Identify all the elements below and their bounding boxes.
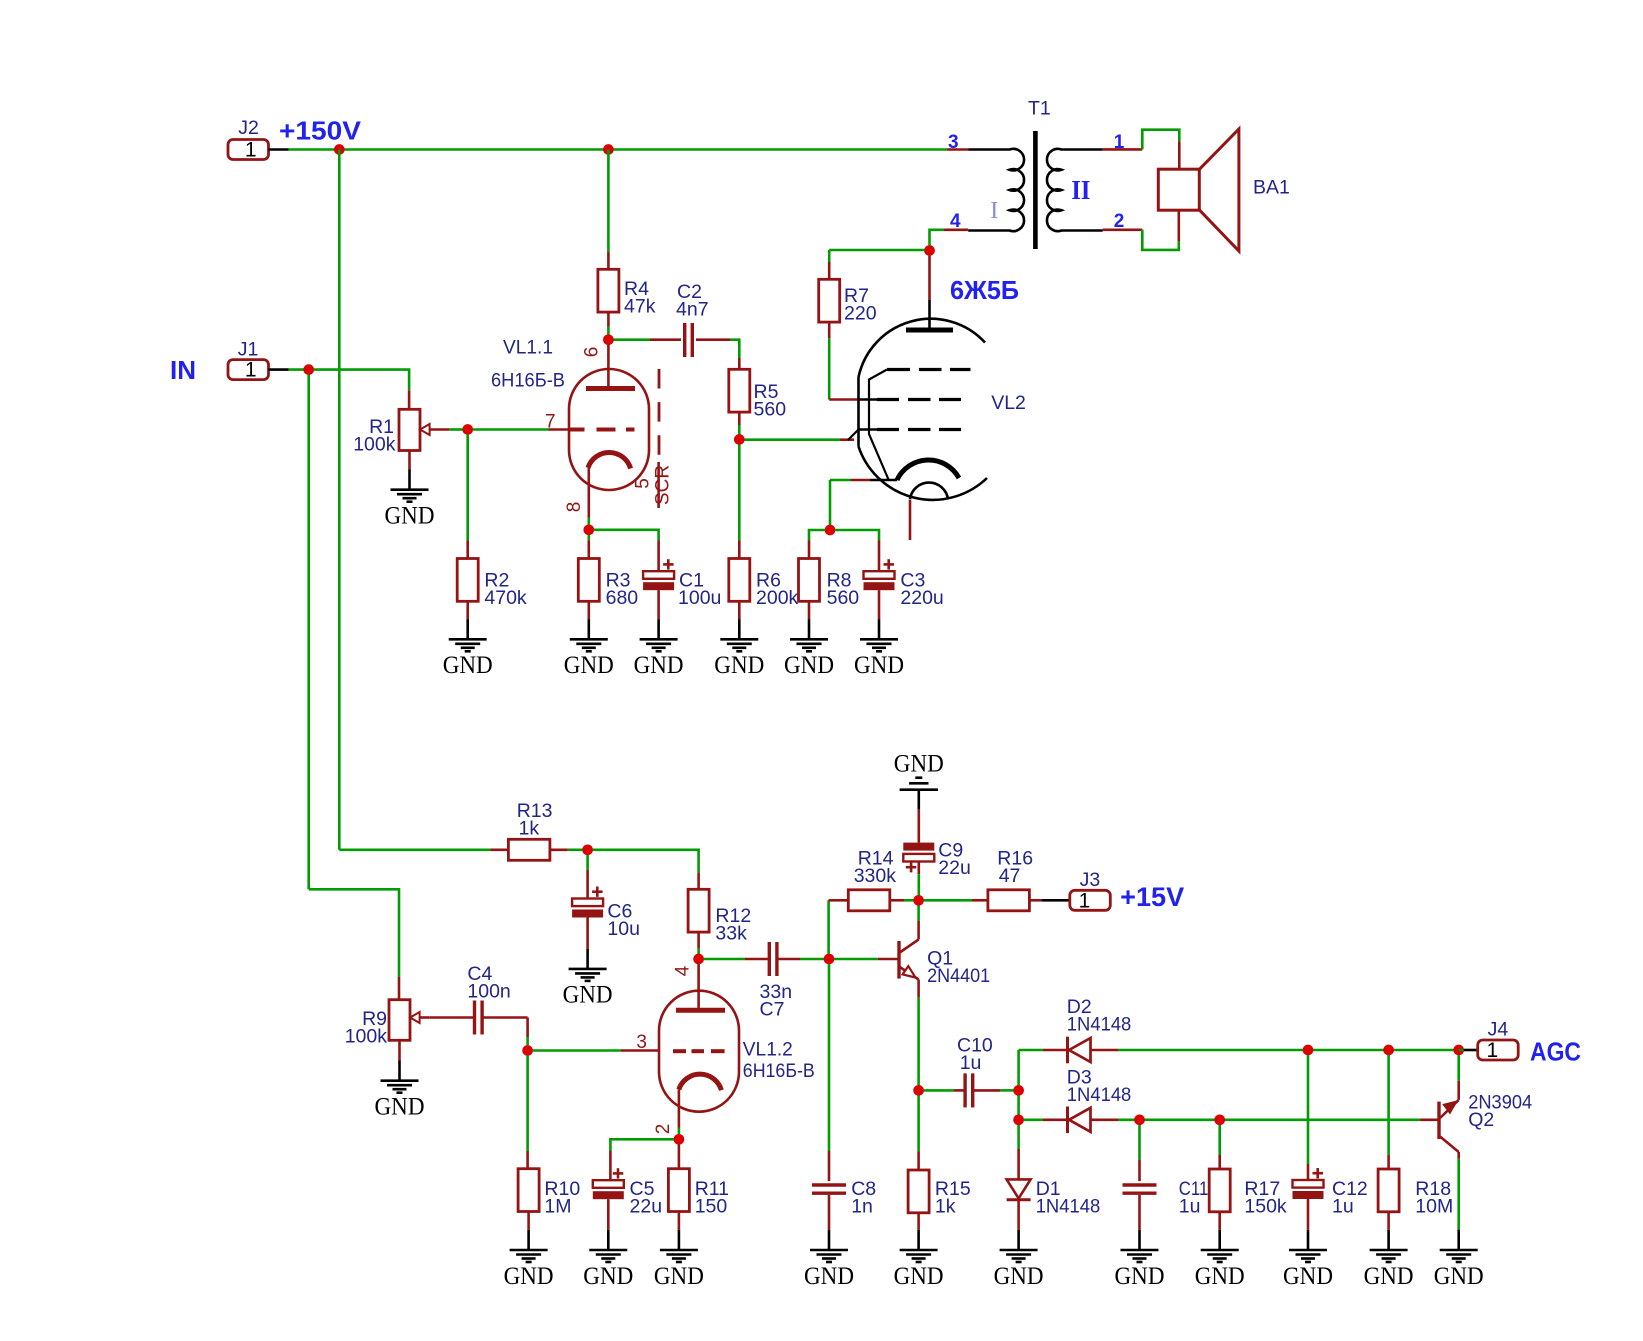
wire C2 to R5 [696, 338, 730, 341]
node junction cathode/R8/C3 [825, 525, 836, 536]
svg-text:GND: GND [443, 652, 493, 679]
wire C9 to node [917, 862, 920, 875]
svg-text:22u: 22u [938, 857, 971, 879]
node junction J2 rail / left vertical [334, 144, 345, 155]
svg-text:2: 2 [653, 1124, 674, 1135]
wire R17 to ground [1218, 1212, 1221, 1230]
wire base rail to Q2 [1420, 1119, 1439, 1122]
transformer T1 primary winding [968, 149, 1024, 231]
tube VL1.2 grid [673, 1049, 686, 1053]
svg-text:1N4148: 1N4148 [1067, 1084, 1132, 1106]
svg-text:C7: C7 [760, 999, 785, 1021]
svg-text:GND: GND [894, 1263, 944, 1290]
wire T1 pin1 [1103, 148, 1143, 151]
wire node to C7 [704, 958, 745, 961]
wire cathode pin 8 [587, 468, 590, 518]
svg-text:1M: 1M [544, 1196, 571, 1218]
wire R3 to ground [587, 601, 590, 619]
ground R15 [917, 1230, 920, 1250]
wire C4 to node [482, 1016, 527, 1019]
wire C8 to ground [828, 1195, 831, 1230]
svg-text:GND: GND [1115, 1263, 1165, 1290]
svg-text:1N4148: 1N4148 [1036, 1196, 1101, 1218]
svg-text:220u: 220u [900, 587, 943, 609]
ground C11 [1138, 1230, 1141, 1250]
node junction C7/C8/Q1 base [824, 954, 835, 965]
capacitor C4 [473, 1001, 476, 1035]
wire node to VL1.2 plate [697, 964, 700, 1010]
wire C5 to ground [607, 1199, 610, 1230]
svg-text:GND: GND [563, 982, 613, 1009]
svg-text:1k: 1k [935, 1196, 956, 1218]
wire node to T1 pin4 [930, 230, 945, 246]
svg-text:GND: GND [385, 503, 435, 530]
wire R6 to ground [738, 601, 741, 619]
svg-text:3: 3 [636, 1032, 647, 1053]
wire R2 to ground [466, 601, 469, 619]
wire node to R8 [809, 530, 825, 541]
wire VL2 cathode to node [851, 479, 871, 482]
svg-text:1: 1 [1487, 1039, 1499, 1062]
ground C5 [607, 1230, 610, 1250]
node junction R5/R6/VL2 grid [734, 434, 745, 445]
node junction D3 rail/C11 [1134, 1114, 1145, 1125]
svg-text:4: 4 [673, 965, 694, 976]
wire J1 to R1 [314, 370, 409, 391]
svg-text:+15V: +15V [1120, 882, 1184, 912]
tube VL2 plate [928, 300, 931, 330]
wire pin1 to speaker [1142, 130, 1179, 150]
connector J3 [1070, 890, 1111, 910]
tube VL2 envelope [859, 319, 986, 377]
resistor R17 [1209, 1169, 1230, 1212]
ground C3 [878, 619, 881, 639]
svg-text:8: 8 [564, 502, 585, 513]
wire C11 to ground [1138, 1195, 1141, 1230]
node junction AGC/R18 [1383, 1045, 1394, 1056]
svg-text:10u: 10u [607, 918, 640, 940]
svg-text:GND: GND [504, 1263, 554, 1290]
svg-text:1: 1 [1114, 132, 1125, 153]
svg-text:5: 5 [633, 478, 654, 489]
svg-text:SCR: SCR [653, 465, 674, 505]
svg-text:VL2: VL2 [991, 392, 1026, 414]
ground R10 [527, 1230, 530, 1250]
svg-text:100u: 100u [678, 587, 721, 609]
svg-text:Q2: Q2 [1468, 1109, 1494, 1131]
svg-text:560: 560 [754, 399, 787, 421]
node junction C4/R10/pin3 [522, 1045, 533, 1056]
wire +150V left vertical [338, 150, 341, 850]
wire R17 lead [1218, 1125, 1221, 1155]
svg-text:1u: 1u [960, 1052, 982, 1074]
ground R8 [808, 619, 811, 639]
ground R11 [678, 1230, 681, 1250]
wire R18 to ground [1387, 1212, 1390, 1230]
diode D3 [1066, 1107, 1069, 1134]
wire R14 left vertical [827, 900, 830, 954]
wire node to C3 [835, 530, 879, 541]
ground above C9 [917, 790, 920, 810]
wire node to Q1 base [834, 958, 878, 961]
node junction C10/diode column [1013, 1085, 1024, 1096]
wire node to VL1.2 grid [533, 1049, 621, 1052]
svg-text:J2: J2 [238, 117, 259, 139]
ground Q2 [1457, 1230, 1460, 1250]
node junction AGC/C12 [1303, 1045, 1314, 1056]
wire +150V rail [289, 148, 947, 151]
capacitor C10 [963, 1073, 966, 1107]
svg-text:IN: IN [170, 355, 196, 385]
wire D3 rail right [1091, 1119, 1119, 1122]
svg-text:1: 1 [245, 139, 257, 162]
svg-text:6Н16Б-В: 6Н16Б-В [491, 370, 565, 392]
wire node to C8 [828, 964, 831, 1151]
svg-text:J1: J1 [238, 339, 259, 361]
node junction Q1 emitter/C10/R15 [913, 1085, 924, 1096]
wire R13 to node [550, 848, 568, 851]
wire node to R3 [587, 535, 590, 541]
svg-text:1n: 1n [851, 1196, 873, 1218]
capacitor C9 [903, 843, 934, 851]
ground R3 [587, 619, 590, 639]
wire rail to T1 pin3 [947, 148, 968, 151]
node junction wiper/R2/pin7 [462, 424, 473, 435]
resistor R11 [668, 1169, 689, 1212]
wire node to VL2 grid [744, 438, 840, 441]
node junction T1 pin4/R7/VL2 plate [924, 245, 935, 256]
svg-text:GND: GND [1364, 1263, 1414, 1290]
wire C7 to node [777, 958, 800, 961]
svg-text:330k: 330k [854, 865, 897, 887]
tube VL1.1 cathode [588, 452, 631, 468]
wire R10 to ground [527, 1212, 530, 1230]
svg-text:470k: 470k [484, 587, 527, 609]
wire C11 lead [1138, 1125, 1141, 1160]
wire node to R7 [829, 249, 924, 252]
svg-text:100k: 100k [345, 1026, 388, 1048]
svg-text:AGC: AGC [1530, 1037, 1581, 1067]
node junction R12/C7/pin4 [693, 954, 704, 965]
diode D2 [1066, 1037, 1069, 1064]
svg-text:220: 220 [844, 303, 877, 325]
wire node to R12 [593, 850, 699, 873]
wire node to R11 [678, 1144, 681, 1168]
svg-text:J3: J3 [1080, 869, 1101, 891]
wire J1 pin stub [269, 368, 289, 371]
resistor R13 [508, 839, 550, 860]
svg-text:VL1.2: VL1.2 [743, 1039, 793, 1061]
ground R17 [1218, 1230, 1221, 1250]
ground D1 [1017, 1230, 1020, 1250]
wire ground to C9 [917, 810, 920, 843]
svg-text:200k: 200k [756, 587, 799, 609]
tube half separator dashed [658, 369, 661, 457]
ground C6 [586, 949, 589, 969]
svg-text:BA1: BA1 [1253, 177, 1290, 199]
svg-text:47: 47 [999, 865, 1021, 887]
wire pin2 to speaker [1142, 230, 1179, 250]
svg-text:100n: 100n [467, 981, 510, 1003]
svg-text:150k: 150k [1244, 1196, 1287, 1218]
resistor R18 [1378, 1169, 1399, 1212]
connector J2 [228, 140, 269, 160]
tube VL2 screen grid [859, 398, 878, 401]
svg-text:560: 560 [827, 587, 860, 609]
svg-text:GND: GND [375, 1094, 425, 1121]
wire column D2-D3 [1017, 1096, 1020, 1115]
node junction R13/C6/R12 [582, 844, 593, 855]
wire C10 to node [973, 1089, 1000, 1092]
wire node to R16 [924, 899, 972, 902]
wire D3 rail left [1024, 1119, 1043, 1122]
wire D2 to AGC rail [1091, 1049, 1119, 1052]
node junction AGC/Q2 [1453, 1045, 1464, 1056]
ground C1 [657, 619, 660, 639]
resistor R8 [799, 559, 820, 602]
wire cathode pin 2 [678, 1090, 681, 1128]
node junction J1/IN vertical [303, 364, 314, 375]
tube VL1.1 envelope [569, 369, 649, 490]
node junction rail / R4 [603, 144, 614, 155]
wire C6 to ground [586, 917, 589, 948]
transistor Q2 [1437, 1102, 1440, 1139]
resistor R3 [578, 559, 599, 602]
svg-text:22u: 22u [630, 1196, 663, 1218]
ground R18 [1387, 1230, 1390, 1250]
svg-text:3: 3 [948, 132, 959, 153]
wire R8 to ground [808, 601, 811, 619]
node junction D3 rail/D1 [1013, 1114, 1024, 1125]
wire C12 to ground [1307, 1199, 1310, 1230]
transistor Q1 [897, 941, 900, 979]
capacitor C6 [572, 899, 603, 907]
svg-text:47k: 47k [624, 296, 656, 318]
wire R15 to ground [917, 1213, 920, 1230]
wire R1 to ground [408, 451, 411, 470]
node junction pin6/R4/C2 [603, 334, 614, 345]
wire J1 to junction [289, 368, 309, 371]
wire node to R15 [917, 1096, 920, 1152]
tube VL1.2 plate [676, 1008, 725, 1013]
resistor R10 [518, 1169, 539, 1212]
wire R9 to ground [398, 1040, 401, 1060]
potentiometer R9 [389, 1000, 410, 1041]
tube VL2 suppressor grid [887, 368, 910, 371]
ground R1 [408, 470, 411, 490]
transformer T1 core [1033, 131, 1038, 249]
wire J2 pin stub [269, 148, 289, 151]
capacitor C5 [593, 1180, 624, 1188]
svg-text:1u: 1u [1332, 1196, 1354, 1218]
tube VL2 heater [910, 483, 948, 499]
svg-text:GND: GND [634, 652, 684, 679]
capacitor C8 [812, 1183, 846, 1186]
transformer T1 secondary winding [1047, 149, 1103, 231]
svg-text:1u: 1u [1179, 1196, 1201, 1218]
tube VL1.2 envelope [659, 991, 739, 1112]
svg-text:GND: GND [994, 1263, 1044, 1290]
svg-text:680: 680 [606, 587, 639, 609]
wire node to tube pin7 [473, 428, 549, 431]
svg-text:GND: GND [714, 652, 764, 679]
wire R11 to ground [678, 1212, 681, 1230]
svg-text:1k: 1k [519, 818, 540, 840]
svg-text:2N4401: 2N4401 [927, 965, 990, 987]
resistor R16 [988, 890, 1030, 911]
svg-text:GND: GND [784, 652, 834, 679]
svg-text:4: 4 [950, 211, 961, 232]
wire node to R10 [526, 1056, 529, 1151]
svg-text:1: 1 [1079, 889, 1091, 912]
svg-text:GND: GND [854, 652, 904, 679]
wire node to VL2 plate [928, 256, 931, 300]
svg-text:100k: 100k [353, 434, 396, 456]
tube VL2 control grid [848, 430, 859, 441]
connector J1 [228, 360, 269, 380]
tube VL1.2 cathode [679, 1074, 722, 1090]
svg-text:GND: GND [583, 1263, 633, 1290]
svg-text:GND: GND [1195, 1263, 1245, 1290]
wire R12 to node [697, 932, 700, 948]
wire D1 lead [1017, 1125, 1020, 1149]
wire T1 pin2 [1103, 229, 1143, 232]
capacitor C2 [683, 323, 686, 357]
node junction pin2/C5/R11 [674, 1134, 685, 1145]
svg-text:33k: 33k [715, 923, 747, 945]
ground C12 [1307, 1230, 1310, 1250]
svg-text:GND: GND [894, 751, 944, 778]
resistor R6 [729, 559, 750, 602]
wire R9 wiper to C4 [420, 1016, 430, 1019]
resistor R5 [729, 369, 750, 412]
wire node to C1 [594, 530, 659, 541]
wire IN to R9 [309, 889, 399, 977]
wire column up to D2 rail [1017, 1050, 1020, 1085]
svg-text:6Н16Б-В: 6Н16Б-В [743, 1060, 815, 1082]
wire R4 to node 6 [607, 312, 610, 326]
wire rail to R4 [607, 150, 610, 253]
svg-text:II: II [1071, 175, 1090, 205]
tube VL1.1 grid [569, 428, 585, 432]
wire C1 to ground [657, 590, 660, 619]
speaker BA1 [1158, 169, 1199, 210]
capacitor C7 [768, 942, 771, 976]
svg-text:GND: GND [1283, 1263, 1333, 1290]
svg-text:GND: GND [804, 1263, 854, 1290]
wire R14 to base rail [829, 899, 849, 902]
svg-text:GND: GND [654, 1263, 704, 1290]
resistor R7 [819, 279, 840, 322]
ground R6 [738, 619, 741, 639]
tube VL2 cathode [897, 460, 959, 480]
svg-text:6Ж5Б: 6Ж5Б [950, 275, 1019, 305]
svg-text:T1: T1 [1028, 98, 1051, 120]
tube VL1.1 plate [586, 386, 635, 391]
wire R16 to J3 [1029, 899, 1041, 902]
wire node to R14 [904, 899, 914, 902]
svg-text:6: 6 [582, 347, 603, 358]
svg-text:J4: J4 [1488, 1019, 1509, 1041]
resistor R15 [908, 1170, 929, 1213]
wire D1 to ground [1017, 1201, 1020, 1230]
wire Q2 to ground [1457, 1229, 1460, 1232]
wire node to C10 [924, 1089, 954, 1092]
diode D1 [1007, 1179, 1031, 1198]
svg-text:GND: GND [1434, 1263, 1484, 1290]
wire +150V to R13 [339, 848, 490, 851]
ground R9 [398, 1061, 401, 1081]
wire node to C6 [586, 855, 589, 870]
svg-text:VL1.1: VL1.1 [503, 337, 553, 359]
wire node6 to C2 [614, 338, 651, 341]
wire AGC to J4 [1459, 1049, 1464, 1052]
resistor R4 [598, 269, 619, 312]
wire R18 lead [1387, 1055, 1390, 1155]
wire R5 to node [738, 412, 741, 425]
resistor R2 [457, 559, 478, 602]
svg-text:GND: GND [564, 652, 614, 679]
svg-text:150: 150 [695, 1196, 728, 1218]
wire C12 lead [1307, 1055, 1310, 1164]
capacitor C11 [1123, 1183, 1157, 1186]
wire R7 to VL2 screen [828, 322, 831, 338]
node junction pin8/R3/C1 [583, 524, 594, 535]
node junction C9/R14/R16/Q1 collector [913, 895, 924, 906]
svg-text:2: 2 [1114, 211, 1125, 232]
svg-text:1N4148: 1N4148 [1067, 1014, 1132, 1036]
wire node to C5 [610, 1139, 673, 1151]
node junction D3 rail/R17 [1214, 1114, 1225, 1125]
wire D2 rail left [1019, 1049, 1043, 1052]
wire IN left vertical [307, 375, 310, 890]
pin 5 SCR overbar [657, 462, 660, 508]
svg-text:I: I [990, 198, 998, 224]
capacitor C3 [864, 571, 895, 579]
resistor R12 [688, 889, 709, 932]
capacitor C12 [1293, 1180, 1324, 1188]
svg-text:10M: 10M [1415, 1196, 1453, 1218]
wire R1 wiper [430, 428, 450, 431]
wire C3 to ground [878, 590, 881, 619]
connector J4 [1478, 1040, 1519, 1060]
svg-text:1: 1 [245, 359, 257, 382]
svg-text:+150V: +150V [279, 116, 362, 146]
ground C8 [828, 1230, 831, 1250]
wire node to R2 [466, 435, 469, 541]
capacitor C1 [643, 571, 674, 579]
potentiometer R1 [399, 409, 420, 450]
wire node to R6 [738, 445, 741, 541]
svg-text:4n7: 4n7 [676, 299, 709, 321]
ground R2 [466, 619, 469, 639]
svg-text:7: 7 [545, 412, 556, 433]
resistor R14 [848, 890, 890, 911]
